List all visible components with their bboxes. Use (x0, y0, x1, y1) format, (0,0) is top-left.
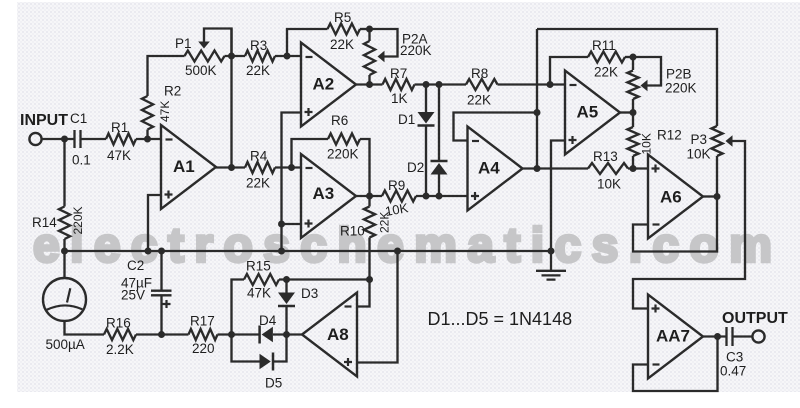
wire R6 loop left (292, 139, 329, 168)
svg-text:P1: P1 (175, 36, 192, 51)
svg-text:R9: R9 (388, 178, 405, 193)
capacitor C2 (151, 291, 172, 308)
svg-text:P2B: P2B (666, 67, 692, 82)
wire R5 to P2A (360, 28, 370, 30)
wire R3 to A2 minus (275, 55, 301, 57)
A3 plus mark (305, 220, 313, 228)
wire D5 branch left (232, 335, 260, 362)
wire P2A top lead (368, 29, 370, 41)
P3 wiper arrow (726, 135, 733, 147)
resistor R17 (189, 329, 218, 340)
potentiometer P2B (627, 71, 638, 100)
svg-text:220K: 220K (327, 147, 359, 162)
wire A1 output to A3 minus (216, 166, 245, 168)
node A2out P2A (366, 81, 373, 88)
resistor R6 (328, 134, 360, 145)
svg-text:R4: R4 (250, 149, 268, 164)
node D2 bottom (436, 193, 443, 200)
svg-text:10K: 10K (597, 177, 621, 192)
op-amp A4 (468, 127, 523, 211)
wire P1 wiper loop (204, 29, 232, 57)
wire R1 to A1 minus (136, 138, 161, 140)
svg-text:A8: A8 (327, 325, 349, 344)
wire A4 output to R13 (523, 167, 588, 169)
resistor R2 (142, 96, 153, 130)
AA7 minus mark (653, 363, 660, 365)
wire D1 cathode lead (425, 126, 427, 197)
wire node to R2 (146, 130, 148, 140)
wire P2A wiper loop (370, 29, 398, 57)
diode D1 (418, 112, 435, 126)
wire input to C1 (41, 138, 74, 140)
node C2 bottom (158, 331, 165, 338)
P1 wiper arrow (198, 42, 210, 49)
svg-text:A1: A1 (173, 157, 195, 176)
wire A6 output (703, 195, 717, 197)
A6 minus mark (653, 223, 660, 225)
node A5 minus (547, 81, 554, 88)
node A4out riser (534, 165, 541, 172)
wire riser A1out to P1 node (230, 29, 232, 168)
resistor R1 (106, 134, 136, 145)
wire R10 top lead (368, 196, 370, 207)
wire rail to meter (63, 251, 65, 278)
node AA7 output (714, 333, 721, 340)
node R15 D3 (283, 276, 290, 283)
wire R10 bottom lead (368, 238, 370, 280)
wire R8 to A5 minus (498, 83, 566, 85)
node R11 P2B (630, 54, 637, 61)
resistor R14 (59, 207, 70, 240)
wire D1 anode lead (425, 85, 427, 113)
svg-text:D5: D5 (265, 376, 282, 391)
svg-text:500µA: 500µA (46, 337, 85, 352)
wire A8 plus to rail (357, 251, 398, 363)
A2 minus mark (306, 56, 313, 58)
A5 minus mark (570, 84, 577, 86)
node D4 D5 A8out (283, 331, 290, 338)
svg-text:R14: R14 (32, 215, 57, 230)
svg-text:INPUT: INPUT (20, 112, 68, 129)
resistor R7 (383, 79, 415, 90)
node A3out R6 R10 (366, 193, 373, 200)
svg-text:25V: 25V (121, 288, 145, 303)
wire rail to C2 (160, 251, 162, 290)
svg-text:D1: D1 (398, 112, 415, 127)
A1 minus mark (166, 138, 173, 140)
svg-text:22K: 22K (378, 212, 392, 233)
capacitor C3 (727, 327, 733, 346)
A8 plus mark (344, 358, 352, 366)
A4 plus mark (471, 192, 479, 200)
svg-text:D4: D4 (259, 313, 277, 328)
op-amp A3 (301, 154, 356, 238)
wire A4 minus loop (454, 113, 538, 141)
potentiometer P3 (711, 126, 722, 156)
node input junction (61, 136, 68, 143)
resistor R5 (328, 24, 361, 35)
wire P2A bottom lead (368, 75, 370, 85)
op-amp AA7 (648, 295, 703, 379)
wire A2 plus to rail (282, 113, 302, 252)
wire P2B top lead (632, 57, 634, 70)
svg-text:A3: A3 (313, 184, 335, 203)
node P1 wiper junction (228, 53, 235, 60)
svg-text:R10: R10 (340, 224, 365, 239)
node D1 bottom (423, 193, 430, 200)
svg-text:A5: A5 (577, 103, 599, 122)
wire R16 to R17 (136, 333, 189, 335)
svg-text:220K: 220K (71, 206, 85, 234)
wire A5 output (620, 111, 633, 113)
wire A3 output (356, 195, 382, 197)
svg-text:R3: R3 (250, 38, 267, 53)
resistor R12 (627, 127, 638, 156)
svg-text:220K: 220K (400, 43, 432, 58)
wire A5 plus to ground rail (551, 141, 565, 252)
output terminal (752, 330, 764, 342)
wire R13 to A6 plus (628, 167, 648, 169)
diode D4 (260, 326, 273, 344)
wire C3 to output (734, 335, 754, 337)
svg-text:A4: A4 (478, 159, 500, 178)
diode D3 (278, 293, 295, 307)
svg-text:R16: R16 (106, 316, 131, 331)
diode D2 (431, 161, 448, 175)
node rail A8plus (394, 248, 401, 255)
svg-text:electroschematics.com: electroschematics.com (33, 220, 782, 273)
wire P2B wiper loop (633, 57, 661, 86)
svg-text:R8: R8 (471, 66, 488, 81)
node R10 A8minus (366, 276, 373, 283)
node A1 output (228, 164, 235, 171)
node rail A1plus (145, 248, 152, 255)
wire P3 wiper to AA7 plus (633, 141, 745, 309)
wire C2 to R16 line (160, 296, 162, 335)
svg-text:2.2K: 2.2K (106, 342, 134, 357)
svg-text:22K: 22K (467, 93, 491, 108)
AA7 plus mark (652, 305, 660, 313)
resistor R9 (382, 191, 416, 202)
resistor R13 (588, 163, 628, 174)
svg-text:C2: C2 (127, 258, 144, 273)
node D1 top (423, 81, 430, 88)
wire R7 to R8 (415, 83, 467, 85)
wire D2 anode lead (438, 175, 440, 197)
svg-text:22K: 22K (246, 63, 270, 78)
node R1 R2 A1 (144, 136, 151, 143)
wire AA7 output (703, 335, 726, 337)
wire R11 to P2B (625, 56, 633, 58)
svg-text:AA7: AA7 (656, 327, 690, 346)
wire R17 to D4 (218, 333, 260, 335)
wire R4 to A3 minus (275, 166, 301, 168)
svg-text:C1: C1 (70, 111, 87, 126)
resistor R3 (245, 51, 275, 62)
wire A2 output (356, 83, 383, 85)
wire R12 top lead (632, 113, 634, 128)
svg-text:R6: R6 (331, 113, 348, 128)
ground symbol (536, 251, 566, 280)
svg-text:220: 220 (192, 341, 215, 356)
A5 plus mark (569, 136, 577, 144)
wire A6 feedback loop (633, 197, 717, 252)
resistor R8 (466, 79, 498, 90)
svg-text:R5: R5 (334, 10, 351, 25)
wire R15 left riser (232, 280, 245, 335)
svg-text:47K: 47K (247, 286, 271, 301)
svg-text:R2: R2 (164, 84, 181, 99)
svg-text:R1: R1 (111, 120, 128, 135)
wire top feedback to P3 (537, 29, 717, 126)
svg-text:22K: 22K (594, 65, 618, 80)
wire AA7 feedback loop (633, 337, 718, 392)
svg-text:R15: R15 (246, 259, 271, 274)
node R12 R13 A6plus (630, 165, 637, 172)
op-amp A5 (565, 71, 620, 155)
wire P3 bottom lead (716, 156, 718, 197)
wire riser A4out to top (536, 29, 538, 169)
op-amp A6 (648, 155, 703, 239)
A8 minus mark (345, 305, 352, 307)
svg-text:220K: 220K (665, 81, 697, 96)
node rail C2 (158, 248, 165, 255)
node rail ground (548, 248, 555, 255)
svg-text:47K: 47K (107, 148, 131, 163)
node rail A2A3plus (278, 248, 285, 255)
resistor R4 (245, 162, 275, 173)
wire D3 anode lead (285, 280, 287, 293)
P2B wiper arrow (641, 80, 648, 92)
svg-text:0.1: 0.1 (72, 153, 91, 168)
svg-text:OUTPUT: OUTPUT (722, 310, 788, 327)
wire R12 bottom lead (632, 156, 634, 169)
node A5out R12 P2B (630, 109, 637, 116)
svg-text:R17: R17 (190, 314, 215, 329)
wire input node down to R14 (63, 139, 65, 207)
wire R6 loop right (360, 139, 370, 196)
P2A wiper arrow (378, 51, 385, 63)
wire R9 to A4 plus (416, 195, 468, 197)
node A6out P3 (714, 193, 721, 200)
node R17 D4 junction (228, 331, 235, 338)
wire P2B bottom lead (632, 99, 634, 113)
resistor R10 (364, 207, 375, 238)
node D2 top (436, 81, 443, 88)
A1 plus mark (165, 191, 173, 199)
wire R5 loop left (287, 29, 328, 56)
svg-text:22K: 22K (330, 37, 354, 52)
svg-text:R11: R11 (592, 38, 616, 53)
input terminal (29, 133, 41, 145)
op-amp A8 (302, 293, 357, 377)
node A4 minus loop (534, 109, 541, 116)
svg-text:1K: 1K (391, 91, 408, 106)
wire R14 to rail (63, 239, 65, 251)
svg-text:R7: R7 (390, 66, 407, 81)
wire meter to R16 (65, 321, 105, 335)
node A3 minus (288, 164, 295, 171)
potentiometer P2A (364, 41, 375, 75)
wire R15 to A8 minus line (279, 278, 370, 280)
diode D5 (260, 353, 274, 371)
wire R11 loop left (550, 57, 588, 85)
svg-text:10K: 10K (640, 133, 654, 154)
potentiometer P1 (185, 51, 225, 62)
svg-text:P3: P3 (691, 132, 708, 147)
wire D4 to A8 output (273, 333, 302, 335)
A3 minus mark (306, 167, 313, 169)
wire D5 branch right (273, 335, 287, 362)
wire A1 plus to rail (148, 195, 161, 251)
svg-text:22K: 22K (246, 176, 270, 191)
svg-text:10K: 10K (687, 147, 711, 162)
resistor R15 (244, 274, 279, 285)
capacitor C1 (75, 130, 81, 148)
svg-text:47K: 47K (158, 101, 172, 122)
svg-text:R12: R12 (657, 128, 682, 143)
node A3 plus riser (278, 221, 285, 228)
wire A8 minus to R15 line (357, 280, 370, 307)
wire P1 to R3 (225, 55, 246, 57)
node R5 P2A (366, 26, 373, 33)
wire ground rail (65, 250, 552, 252)
op-amp A2 (301, 43, 356, 127)
op-amp A1 (161, 125, 216, 209)
svg-text:500K: 500K (185, 63, 217, 78)
svg-text:D1...D5 = 1N4148: D1...D5 = 1N4148 (428, 309, 573, 329)
meter M 500uA (43, 278, 86, 321)
svg-text:0.47: 0.47 (720, 364, 746, 379)
resistor R11 (588, 52, 625, 63)
A4 minus mark (472, 140, 479, 142)
resistor R16 (104, 329, 136, 340)
svg-text:R13: R13 (593, 149, 618, 164)
svg-text:D3: D3 (301, 286, 318, 301)
A2 plus mark (305, 108, 313, 116)
node rail R14 (61, 248, 68, 255)
A6 plus mark (652, 165, 660, 173)
wire D3 cathode lead (285, 306, 287, 335)
svg-text:A6: A6 (660, 188, 682, 207)
svg-text:D2: D2 (407, 160, 424, 175)
node R3 R5 A2minus (284, 53, 291, 60)
wire D2 cathode lead (438, 85, 440, 162)
svg-text:A2: A2 (313, 75, 335, 94)
svg-text:C3: C3 (726, 350, 743, 365)
wire R2 up to P1 line (148, 56, 185, 96)
wire A3 plus stub (282, 223, 302, 225)
wire C1 to R1 (82, 138, 107, 140)
